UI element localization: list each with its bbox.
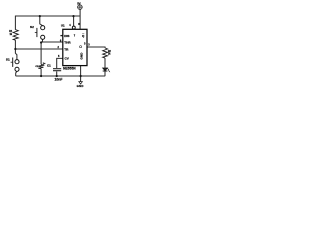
svg-text:THR: THR	[64, 41, 71, 45]
svg-text:GND: GND	[77, 84, 84, 88]
svg-text:U1: U1	[61, 24, 65, 28]
svg-text:10nF: 10nF	[55, 77, 63, 81]
svg-text:NE555N: NE555N	[63, 67, 76, 71]
svg-text:DIS: DIS	[64, 34, 69, 38]
svg-text:S1: S1	[6, 58, 10, 62]
svg-text:5V: 5V	[77, 1, 81, 5]
svg-text:GND: GND	[79, 52, 83, 60]
svg-text:C1: C1	[47, 63, 51, 67]
svg-text:S2: S2	[30, 25, 34, 29]
